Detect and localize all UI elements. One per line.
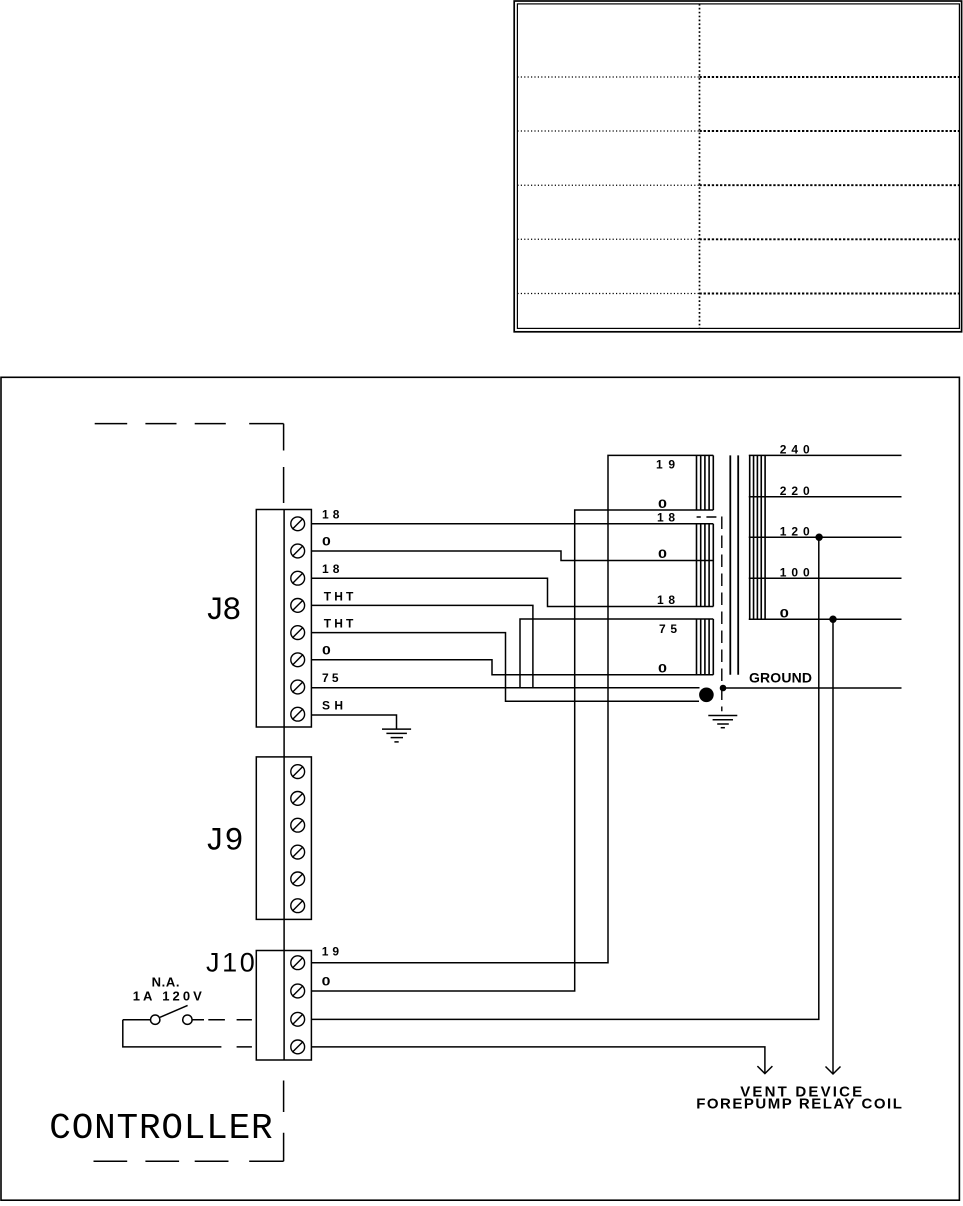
svg-text:FOREPUMP RELAY COIL: FOREPUMP RELAY COIL [696,1096,902,1113]
svg-text:J10: J10 [206,948,255,978]
svg-text:CONTROLLER: CONTROLLER [49,1108,272,1149]
svg-text:0: 0 [658,497,667,511]
svg-text:J8: J8 [205,592,242,629]
svg-text:0: 0 [322,535,331,549]
svg-text:0: 0 [658,661,667,675]
svg-text:J9: J9 [205,823,244,860]
svg-text:GROUND: GROUND [749,670,812,686]
svg-text:120: 120 [780,524,810,538]
svg-text:0: 0 [658,547,667,561]
svg-text:0: 0 [322,975,331,989]
svg-text:THT: THT [324,589,354,603]
svg-text:0: 0 [322,643,331,657]
svg-text:240: 240 [780,443,810,457]
svg-text:THT: THT [324,617,354,631]
svg-text:220: 220 [780,484,810,498]
svg-text:100: 100 [780,566,810,580]
svg-text:0: 0 [780,606,790,620]
